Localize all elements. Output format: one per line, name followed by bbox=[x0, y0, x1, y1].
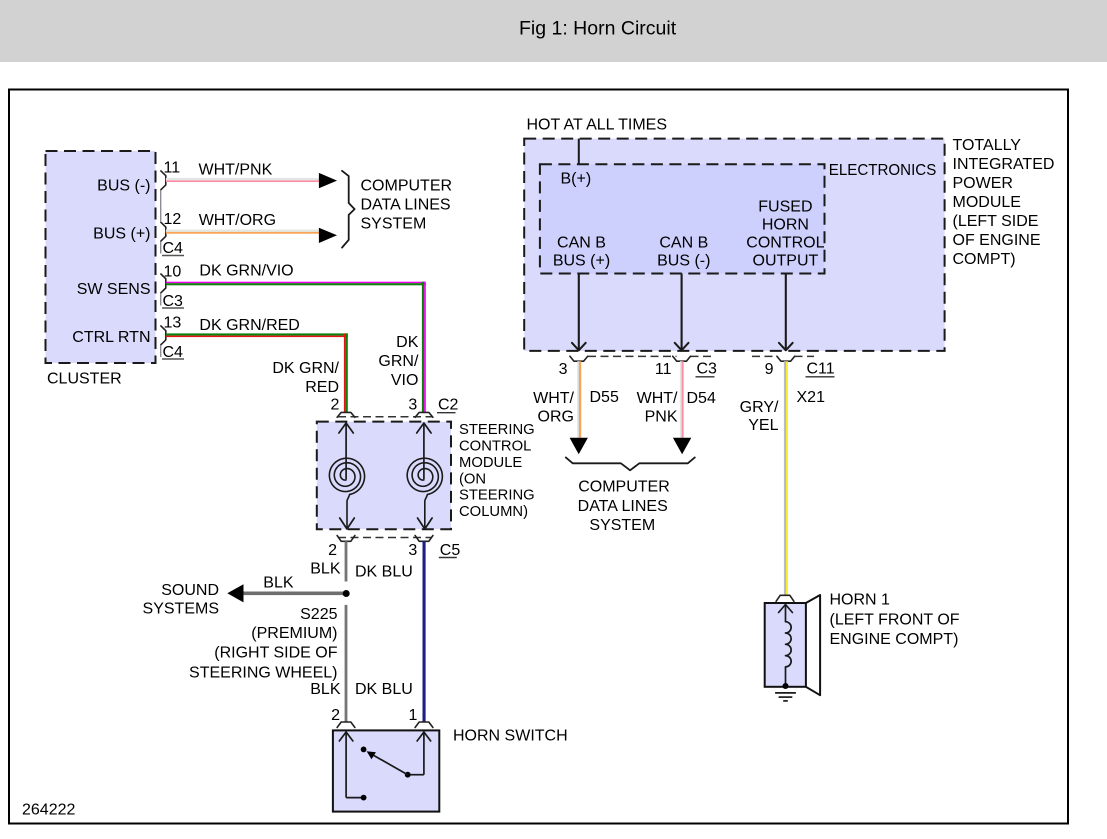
svg-text:OUTPUT: OUTPUT bbox=[753, 253, 819, 270]
svg-text:C2: C2 bbox=[438, 396, 459, 413]
svg-text:VIO: VIO bbox=[391, 372, 419, 389]
svg-text:(LEFT FRONT OF: (LEFT FRONT OF bbox=[830, 612, 960, 629]
svg-text:Fig 1: Horn Circuit: Fig 1: Horn Circuit bbox=[519, 17, 677, 39]
svg-text:MODULE: MODULE bbox=[953, 194, 1021, 211]
svg-text:264222: 264222 bbox=[22, 801, 75, 818]
svg-text:DK GRN/: DK GRN/ bbox=[272, 360, 339, 377]
svg-text:CAN B: CAN B bbox=[659, 235, 708, 252]
svg-text:(LEFT SIDE: (LEFT SIDE bbox=[953, 213, 1039, 230]
svg-text:COMPT): COMPT) bbox=[953, 251, 1016, 268]
svg-text:SW SENS: SW SENS bbox=[77, 281, 151, 298]
svg-text:CONTROL: CONTROL bbox=[459, 439, 531, 455]
svg-text:DATA LINES: DATA LINES bbox=[578, 498, 668, 515]
svg-text:SYSTEMS: SYSTEMS bbox=[143, 601, 219, 618]
svg-text:B(+): B(+) bbox=[561, 171, 592, 188]
svg-text:BUS (-): BUS (-) bbox=[657, 253, 710, 270]
svg-text:OF ENGINE: OF ENGINE bbox=[953, 232, 1041, 249]
svg-text:3: 3 bbox=[408, 542, 417, 559]
svg-text:WHT/: WHT/ bbox=[637, 390, 678, 407]
svg-text:2: 2 bbox=[331, 707, 340, 724]
svg-text:STEERING: STEERING bbox=[459, 488, 535, 504]
svg-text:GRN/: GRN/ bbox=[378, 353, 419, 370]
svg-text:HOT AT ALL TIMES: HOT AT ALL TIMES bbox=[527, 116, 668, 133]
svg-text:DK GRN/VIO: DK GRN/VIO bbox=[199, 263, 293, 280]
svg-text:ELECTRONICS: ELECTRONICS bbox=[829, 162, 937, 179]
svg-text:C11: C11 bbox=[807, 361, 835, 378]
svg-text:DK: DK bbox=[396, 334, 419, 351]
svg-text:ORG: ORG bbox=[538, 409, 574, 426]
svg-text:BLK: BLK bbox=[310, 681, 341, 698]
svg-text:X21: X21 bbox=[797, 389, 826, 406]
svg-text:CLUSTER: CLUSTER bbox=[47, 370, 122, 387]
svg-text:C3: C3 bbox=[163, 293, 184, 310]
svg-text:(RIGHT SIDE OF: (RIGHT SIDE OF bbox=[214, 645, 337, 662]
svg-text:12: 12 bbox=[164, 211, 182, 228]
svg-text:BUS (+): BUS (+) bbox=[93, 225, 150, 242]
svg-text:ENGINE COMPT): ENGINE COMPT) bbox=[830, 631, 959, 648]
svg-text:PNK: PNK bbox=[645, 409, 678, 426]
svg-text:3: 3 bbox=[559, 361, 568, 378]
svg-text:HORN 1: HORN 1 bbox=[830, 592, 891, 609]
svg-text:9: 9 bbox=[765, 361, 774, 378]
svg-text:YEL: YEL bbox=[748, 417, 778, 434]
svg-text:INTEGRATED: INTEGRATED bbox=[953, 156, 1055, 173]
svg-text:CAN B: CAN B bbox=[557, 235, 606, 252]
svg-text:3: 3 bbox=[408, 396, 417, 413]
svg-text:(ON: (ON bbox=[459, 471, 486, 487]
svg-text:SYSTEM: SYSTEM bbox=[361, 216, 427, 233]
svg-text:DK BLU: DK BLU bbox=[355, 681, 413, 698]
svg-text:WHT/PNK: WHT/PNK bbox=[199, 162, 273, 179]
svg-text:HORN SWITCH: HORN SWITCH bbox=[453, 728, 568, 745]
svg-text:RED: RED bbox=[305, 379, 339, 396]
svg-text:CTRL RTN: CTRL RTN bbox=[72, 329, 150, 346]
svg-text:STEERING WHEEL): STEERING WHEEL) bbox=[189, 665, 337, 682]
svg-text:C4: C4 bbox=[163, 344, 184, 361]
svg-text:COMPUTER: COMPUTER bbox=[361, 178, 453, 195]
svg-text:GRY/: GRY/ bbox=[740, 399, 779, 416]
svg-text:WHT/ORG: WHT/ORG bbox=[199, 212, 276, 229]
svg-text:D54: D54 bbox=[687, 390, 716, 407]
svg-text:C5: C5 bbox=[440, 542, 461, 559]
svg-text:1: 1 bbox=[408, 707, 417, 724]
svg-text:BLK: BLK bbox=[263, 574, 294, 591]
svg-text:S225: S225 bbox=[300, 606, 337, 623]
svg-text:BUS (+): BUS (+) bbox=[553, 253, 610, 270]
svg-text:2: 2 bbox=[328, 542, 337, 559]
svg-text:2: 2 bbox=[330, 396, 339, 413]
svg-text:COMPUTER: COMPUTER bbox=[578, 479, 670, 496]
svg-text:D55: D55 bbox=[590, 389, 619, 406]
svg-text:FUSED: FUSED bbox=[758, 199, 812, 216]
svg-text:SOUND: SOUND bbox=[161, 582, 219, 599]
svg-text:(PREMIUM): (PREMIUM) bbox=[251, 625, 337, 642]
svg-text:HORN: HORN bbox=[762, 217, 809, 234]
svg-text:MODULE: MODULE bbox=[459, 455, 522, 471]
svg-text:BLK: BLK bbox=[310, 560, 341, 577]
svg-text:COLUMN): COLUMN) bbox=[459, 504, 528, 520]
svg-text:13: 13 bbox=[164, 314, 182, 331]
svg-text:DK GRN/RED: DK GRN/RED bbox=[199, 317, 299, 334]
svg-text:STEERING: STEERING bbox=[459, 422, 535, 438]
svg-text:POWER: POWER bbox=[953, 175, 1013, 192]
svg-text:DATA LINES: DATA LINES bbox=[361, 197, 451, 214]
svg-text:10: 10 bbox=[164, 263, 182, 280]
svg-text:C4: C4 bbox=[163, 240, 184, 257]
svg-text:SYSTEM: SYSTEM bbox=[589, 517, 655, 534]
svg-text:BUS (-): BUS (-) bbox=[97, 177, 150, 194]
svg-text:11: 11 bbox=[164, 159, 181, 176]
svg-text:C3: C3 bbox=[697, 361, 718, 378]
svg-text:TOTALLY: TOTALLY bbox=[953, 137, 1022, 154]
svg-text:DK BLU: DK BLU bbox=[355, 563, 413, 580]
svg-text:WHT/: WHT/ bbox=[533, 390, 574, 407]
svg-text:CONTROL: CONTROL bbox=[746, 235, 824, 252]
svg-text:11: 11 bbox=[655, 361, 672, 378]
